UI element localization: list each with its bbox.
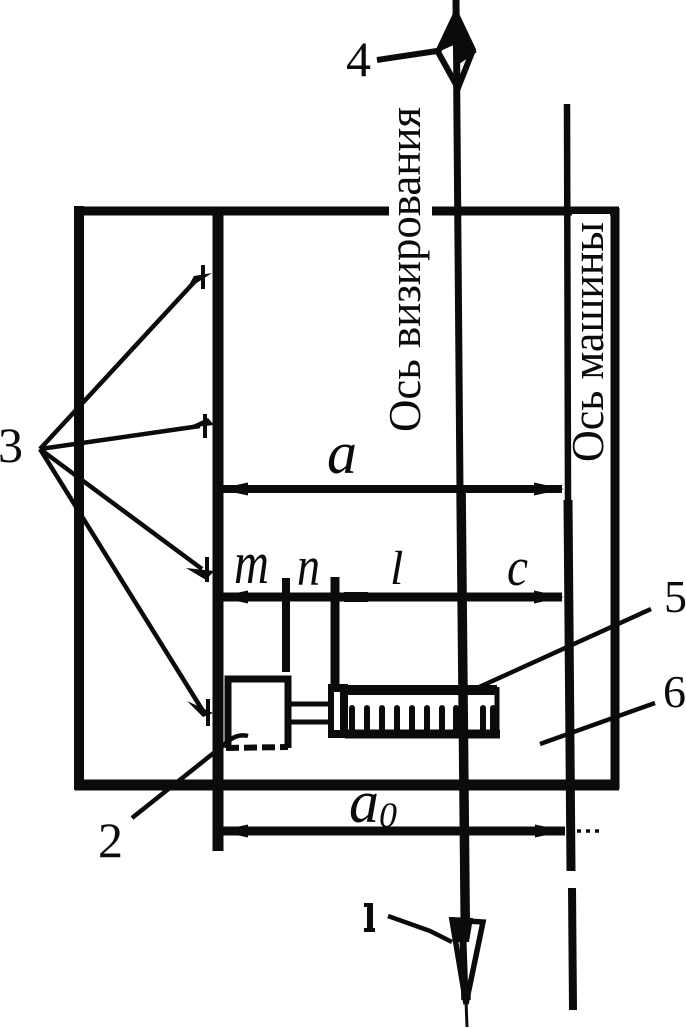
svg-text:4: 4 <box>346 31 371 87</box>
svg-text:Ось визирования: Ось визирования <box>379 107 430 432</box>
svg-text:2: 2 <box>98 812 123 868</box>
svg-text:m: m <box>234 530 269 596</box>
svg-text:6: 6 <box>663 666 686 717</box>
svg-text:n: n <box>297 536 320 598</box>
svg-text:l: l <box>390 542 403 595</box>
svg-text:a: a <box>327 420 357 486</box>
svg-text:a: a <box>349 769 379 835</box>
svg-text:0: 0 <box>379 795 397 835</box>
svg-text:c: c <box>507 537 528 597</box>
svg-text:3: 3 <box>0 417 23 473</box>
svg-text:5: 5 <box>664 571 686 622</box>
svg-text:Ось машины: Ось машины <box>562 222 613 462</box>
